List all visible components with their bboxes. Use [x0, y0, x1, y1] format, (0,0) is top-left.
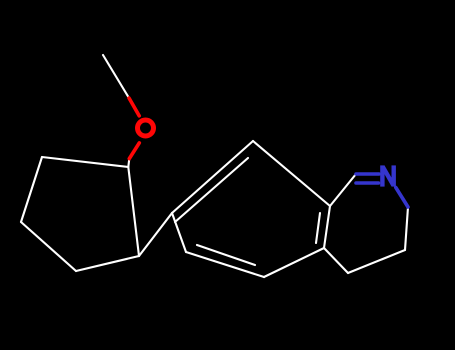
wire C7=N upper — [356, 172, 379, 176]
wire O to ring white part — [128, 159, 129, 167]
wire C8-C9 — [405, 207, 408, 250]
wire A2-A3 — [21, 157, 42, 222]
wire B6-B1 — [172, 213, 186, 252]
wire B2-B3 — [253, 141, 330, 206]
wire methyl to O white part — [103, 55, 129, 98]
wire A5-A1 — [128, 167, 139, 256]
wire B3-C7 — [330, 174, 356, 206]
wire red stub O-ring — [129, 143, 139, 159]
wire C9-C10 — [348, 250, 405, 273]
atom N — [382, 165, 393, 186]
wire C7=N lower — [356, 181, 379, 185]
wire B4-B5 — [264, 248, 324, 277]
wire B1-B2 — [172, 141, 253, 213]
wire A3-A4 — [21, 222, 76, 271]
wire B1-B2 inner double — [175, 158, 248, 222]
wire N-C8 — [396, 188, 408, 208]
wire biaryl A5-B1 — [139, 213, 172, 256]
wire B5-B6 — [186, 252, 264, 277]
atom O — [138, 120, 154, 136]
wire red stub methyl-O — [129, 98, 139, 116]
wire C10-B4 — [324, 248, 348, 273]
wire B3-B4 — [324, 206, 330, 248]
wire B3-B4 inner double — [316, 213, 320, 243]
wire A4-A5 — [76, 256, 139, 271]
wire A1-A2 pentagon top edge — [42, 157, 128, 167]
wire B5-B6 inner double — [197, 245, 255, 265]
